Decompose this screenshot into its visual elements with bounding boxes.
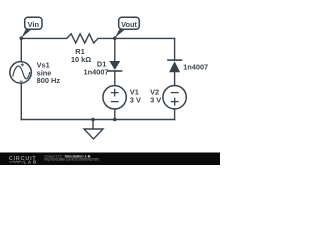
- svg-text:LAB: LAB: [24, 159, 37, 164]
- wire ground stub: [92, 120, 94, 130]
- diode D2 (right, 1n4007): [167, 60, 182, 72]
- node junction dot Vout: [113, 36, 117, 40]
- source V1: [103, 86, 126, 109]
- ground: [84, 129, 103, 139]
- svg-text:1n4007: 1n4007: [183, 63, 208, 72]
- wire bottom rail: [21, 119, 174, 121]
- wire middle branch lower: [114, 109, 116, 120]
- node junction dot V1 bottom: [113, 118, 117, 122]
- node junction dot ground: [91, 118, 95, 122]
- wire left vertical bottom: [20, 83, 22, 119]
- svg-text:3 V: 3 V: [150, 95, 161, 104]
- wire right vertical bottom: [174, 109, 176, 120]
- svg-text:http://circuitlab.com/c/7p268d: http://circuitlab.com/c/7p268dn637dfd: [44, 157, 98, 161]
- wire middle branch upper: [114, 38, 116, 61]
- wire left vertical top: [20, 38, 22, 61]
- svg-text:Vin: Vin: [28, 20, 40, 29]
- svg-text:10 kΩ: 10 kΩ: [71, 55, 91, 64]
- wire top rail with resistor R1 body: [21, 34, 174, 43]
- wire right vertical top: [174, 38, 176, 59]
- svg-text:800 Hz: 800 Hz: [37, 76, 61, 85]
- node Vin flag: [21, 17, 42, 38]
- node junction dot Vin: [20, 36, 24, 40]
- footer bar: [0, 153, 220, 166]
- source Vs1: [10, 62, 32, 84]
- wire middle branch between D1 and V1: [114, 72, 116, 86]
- svg-text:1n4007: 1n4007: [84, 68, 109, 77]
- node Vout flag: [115, 17, 140, 38]
- footer logo resistor zigzag: [9, 161, 23, 163]
- svg-text:Vout: Vout: [121, 20, 137, 29]
- source V2: [163, 86, 186, 109]
- svg-text:3 V: 3 V: [130, 95, 141, 104]
- wire right vertical between diode and V2: [174, 72, 176, 85]
- diode D1: [107, 61, 122, 71]
